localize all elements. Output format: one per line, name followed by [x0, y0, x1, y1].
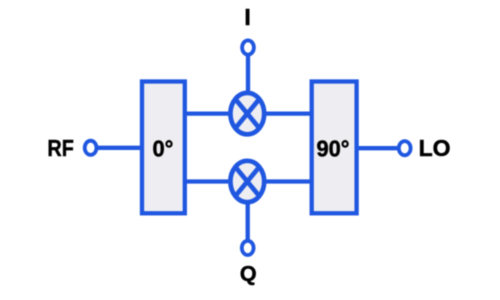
port Q terminal [242, 241, 254, 255]
svg-text:0°: 0° [152, 136, 173, 162]
port LO terminal [399, 141, 411, 155]
wire combiner to LO port [356, 146, 399, 150]
port I terminal [242, 40, 254, 54]
svg-text:I: I [244, 4, 250, 30]
wire mixer M2 to Q port [246, 201, 250, 242]
wire mixer M2 to combiner [263, 179, 313, 183]
block 0-degree splitter [142, 82, 185, 214]
wire splitter to mixer M2 [185, 179, 232, 183]
wire I port to mixer M1 [246, 54, 250, 94]
svg-text:RF: RF [47, 135, 73, 161]
svg-text:Q: Q [240, 262, 257, 286]
mixer M1 [230, 93, 264, 134]
svg-text:LO: LO [419, 135, 451, 161]
wire RF to splitter [97, 146, 142, 150]
block 90-degree combiner [312, 82, 357, 214]
wire splitter to mixer M1 [185, 111, 232, 115]
mixer M2 [230, 161, 264, 202]
wire mixer M1 to combiner [263, 111, 313, 115]
svg-text:90°: 90° [316, 136, 349, 162]
port RF terminal [85, 141, 97, 155]
